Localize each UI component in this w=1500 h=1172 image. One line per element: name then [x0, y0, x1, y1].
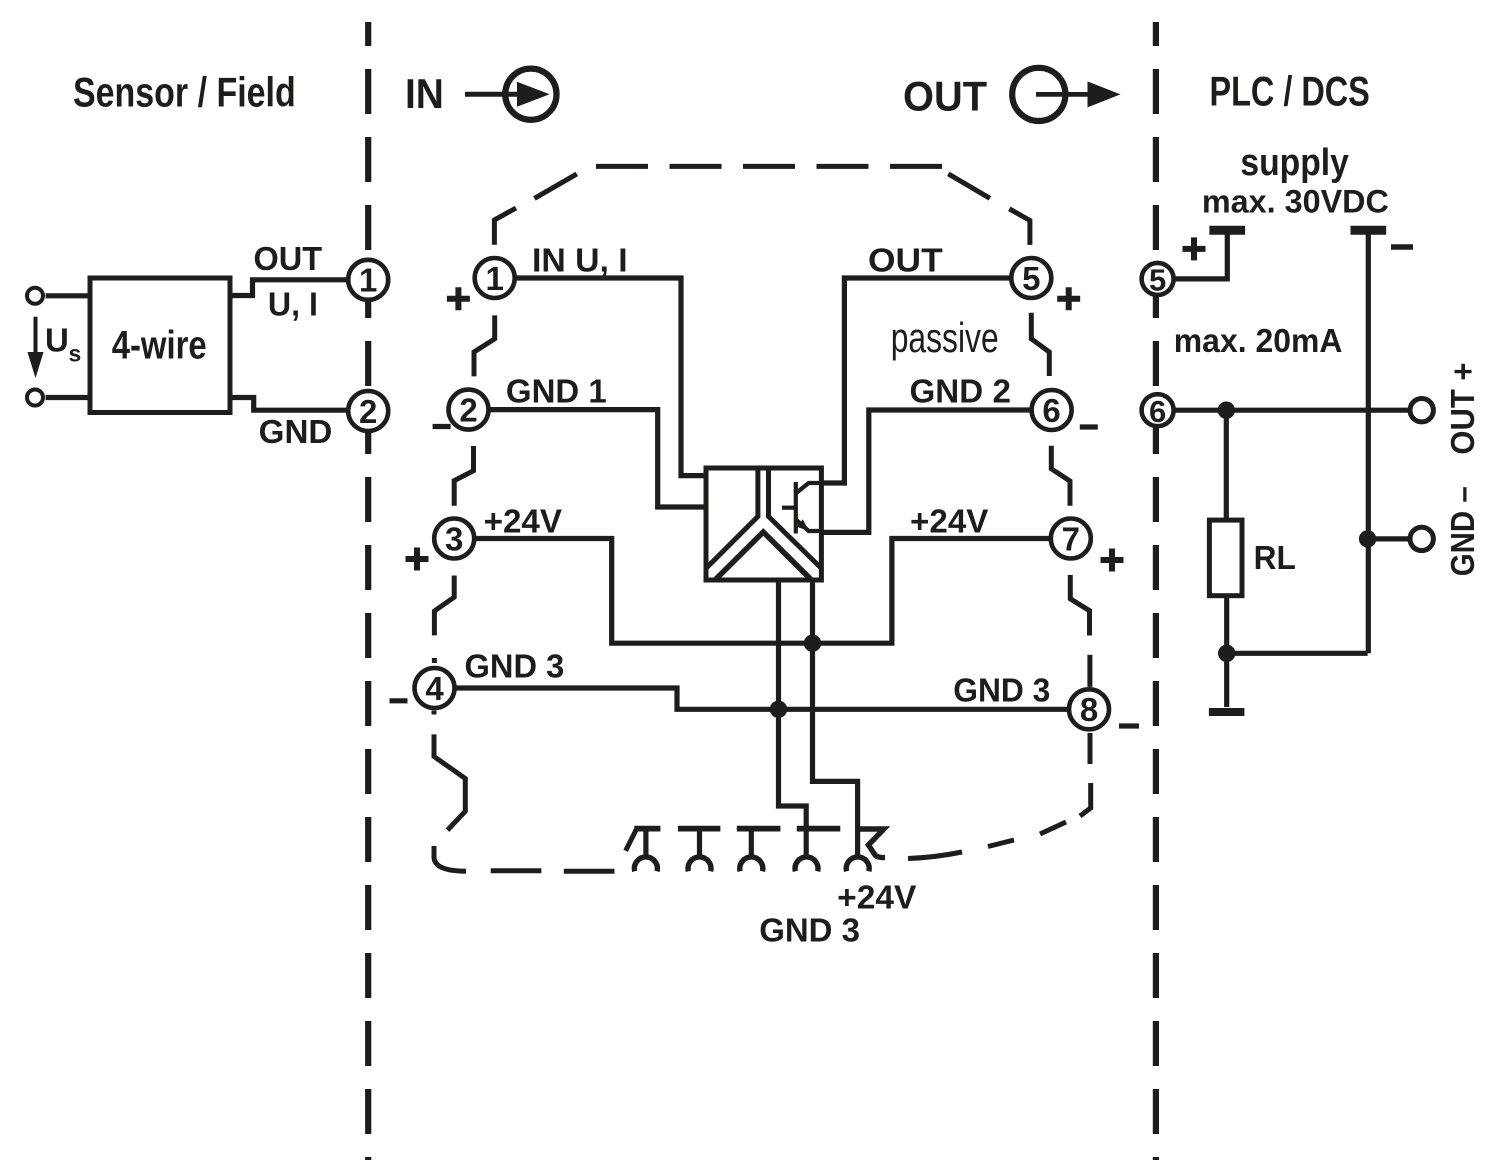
terminal circle 3 (device): [434, 519, 474, 559]
terminal circle 8 (device): [1069, 689, 1109, 729]
plus sign terminal 3: [406, 548, 429, 571]
transistor Q1 emitter with arrow: [796, 520, 822, 532]
svg-text:GND: GND: [259, 413, 333, 450]
terminal circle 6 (PLC): [1142, 394, 1174, 429]
svg-text:U, I: U, I: [268, 286, 318, 323]
svg-text:+24V: +24V: [484, 503, 562, 540]
device dashed outline: top-right diagonal: [948, 174, 990, 198]
terminal circle 5 (PLC): [1142, 263, 1174, 298]
svg-text:OUT: OUT: [903, 72, 987, 119]
wire +24V net: terminal 3 to terminal 7: [472, 539, 1053, 644]
terminal circle 1 (device): [475, 258, 515, 298]
device dashed outline below terminal 4: [432, 711, 437, 715]
svg-text:7: 7: [1062, 520, 1080, 557]
wire +24V stub: box bottom to bus foot 5: [813, 580, 858, 856]
svg-text:IN: IN: [405, 70, 444, 117]
wire rail to GND- circle: [1368, 536, 1410, 541]
wire supply - rail: [1366, 232, 1371, 653]
svg-text:6: 6: [1149, 394, 1166, 429]
svg-text:GND 1: GND 1: [506, 373, 607, 410]
resistor RL: [1209, 520, 1242, 596]
minus sign terminal 6: [1080, 424, 1098, 429]
svg-text:GND –: GND –: [1444, 486, 1481, 576]
wire RL bottom to rail: [1227, 651, 1368, 656]
svg-text:GND 2: GND 2: [910, 373, 1011, 410]
svg-text:passive: passive: [891, 314, 999, 361]
junction rail GND-: [1359, 530, 1376, 547]
separator dashed line left (Sensor/Field | IN): [365, 22, 371, 1160]
4-wire transmitter box: [90, 278, 230, 413]
icon OUT (arrow out of circle): [1012, 68, 1120, 121]
device dashed outline squiggle between terminals 6-7: [1051, 446, 1070, 506]
svg-text:3: 3: [445, 520, 463, 557]
minus sign terminal 8: [1119, 723, 1139, 728]
svg-text:supply: supply: [1240, 142, 1349, 184]
bus foot 3: [737, 829, 781, 872]
junction +24V/busfoot: [804, 635, 821, 652]
isolator box U1: [706, 468, 821, 580]
device dashed outline squiggle between terminals 5-6: [1031, 313, 1049, 376]
svg-text:2: 2: [459, 391, 477, 428]
minus sign supply: [1391, 244, 1413, 250]
junction GND3/busfoot: [770, 701, 787, 718]
open circle OUT+: [1410, 399, 1433, 422]
terminal circle 6 (device): [1032, 390, 1072, 430]
Us arrow: [28, 317, 44, 379]
plus sign terminal 7: [1101, 549, 1124, 572]
svg-text:GND 3: GND 3: [759, 912, 860, 949]
wire sensor top to 4-wire box: [46, 293, 90, 298]
svg-text:5: 5: [1149, 263, 1166, 298]
wire 4-wire box OUT to terminal 1: [230, 280, 350, 296]
minus sign terminal 2: [433, 424, 451, 429]
device dashed outline below terminal 8 (curve to bottom): [1088, 733, 1093, 764]
junction RL top: [1218, 402, 1235, 419]
svg-text:GND 3: GND 3: [465, 647, 565, 684]
svg-text:1: 1: [486, 260, 504, 297]
wire RL bottom to ground: [1224, 596, 1229, 707]
svg-text:GND 3: GND 3: [953, 672, 1050, 709]
wire sensor bottom to 4-wire box: [46, 395, 90, 400]
terminal circle 7 (device): [1051, 519, 1091, 559]
icon IN (arrow into circle): [465, 69, 557, 120]
wire PLC terminal 6 to OUT+: [1175, 408, 1410, 413]
ground bar: [1209, 708, 1245, 716]
terminal circle 1 (sensor side): [348, 260, 388, 300]
wire PLC terminal 5 to battery +: [1175, 232, 1227, 279]
sensor terminal open circle bottom: [27, 390, 43, 406]
svg-text:+24V: +24V: [910, 503, 988, 540]
battery - bar: [1351, 226, 1387, 235]
svg-text:RL: RL: [1254, 539, 1296, 576]
device dashed outline squiggle between terminals 2-3: [454, 446, 473, 506]
wire GND 3 stub: box bottom to bus foot 4: [779, 580, 807, 856]
bus foot 4 (GND 3): [795, 829, 840, 872]
svg-text:IN U, I: IN U, I: [532, 241, 628, 278]
transistor Q1 base lead: [782, 506, 796, 510]
svg-text:2: 2: [359, 393, 377, 430]
svg-text:max. 30VDC: max. 30VDC: [1202, 184, 1389, 220]
plus sign terminal 5: [1057, 287, 1080, 310]
plus sign supply: [1183, 237, 1206, 260]
separator dashed line right (OUT | PLC/DCS): [1153, 22, 1159, 1160]
plus sign terminal 1: [447, 287, 470, 310]
sensor terminal open circle top: [27, 288, 43, 304]
isolation channel right wall: [769, 468, 822, 568]
svg-text:4-wire: 4-wire: [112, 323, 207, 367]
terminal circle 5 (device): [1011, 258, 1051, 298]
junction RL bottom: [1218, 645, 1235, 662]
device dashed outline squiggle between terminals 1-2: [474, 315, 495, 376]
svg-text:max. 20mA: max. 20mA: [1174, 322, 1343, 359]
bus foot 5 (+24V) with latch hook: [846, 829, 885, 871]
svg-text:PLC / DCS: PLC / DCS: [1210, 67, 1370, 114]
battery + bar: [1209, 226, 1245, 235]
svg-text:4: 4: [425, 670, 444, 707]
wire GND 3 net: terminal 4 to terminal 8: [453, 688, 1071, 709]
svg-text:6: 6: [1042, 392, 1060, 429]
device dashed outline: top-left diagonal: [534, 174, 576, 199]
transistor Q1 collector: [796, 483, 822, 493]
wire junction to RL: [1224, 410, 1229, 520]
wire GND 2: isolator box to terminal 6: [821, 410, 1033, 532]
device dashed outline: top horizontal: [596, 164, 950, 169]
terminal circle 2 (device): [449, 390, 489, 430]
svg-text:1: 1: [359, 262, 377, 299]
bus foot 2: [678, 829, 721, 872]
device dashed outline squiggle between terminals 3-4: [434, 576, 454, 636]
svg-text:OUT: OUT: [254, 240, 323, 277]
wire OUT: isolator box to terminal 5: [821, 278, 1013, 483]
svg-text:s: s: [69, 340, 82, 366]
svg-text:8: 8: [1080, 691, 1098, 728]
isolation channel left wall: [706, 468, 758, 568]
wire IN U,I: terminal 1 to isolator box: [513, 278, 706, 476]
minus sign terminal 4: [390, 698, 408, 703]
svg-text:OUT +: OUT +: [1444, 363, 1481, 455]
open circle GND-: [1410, 527, 1433, 550]
svg-text:Sensor / Field: Sensor / Field: [73, 68, 296, 115]
svg-text:5: 5: [1022, 260, 1040, 297]
wire 4-wire box GND to terminal 2: [230, 398, 350, 411]
isolation chevron: [716, 532, 811, 579]
svg-text:OUT: OUT: [868, 241, 943, 278]
svg-text:+24V: +24V: [837, 879, 916, 916]
wire GND 1: terminal 2 to isolator box: [487, 410, 707, 507]
terminal circle 2 (sensor side): [348, 391, 388, 431]
terminal circle 4 (device): [415, 668, 455, 708]
svg-text:U: U: [45, 322, 69, 359]
device dashed outline squiggle between terminals 7-8: [1070, 575, 1089, 636]
bus foot 1: [626, 829, 661, 872]
transistor Q1 base bar: [794, 482, 798, 534]
